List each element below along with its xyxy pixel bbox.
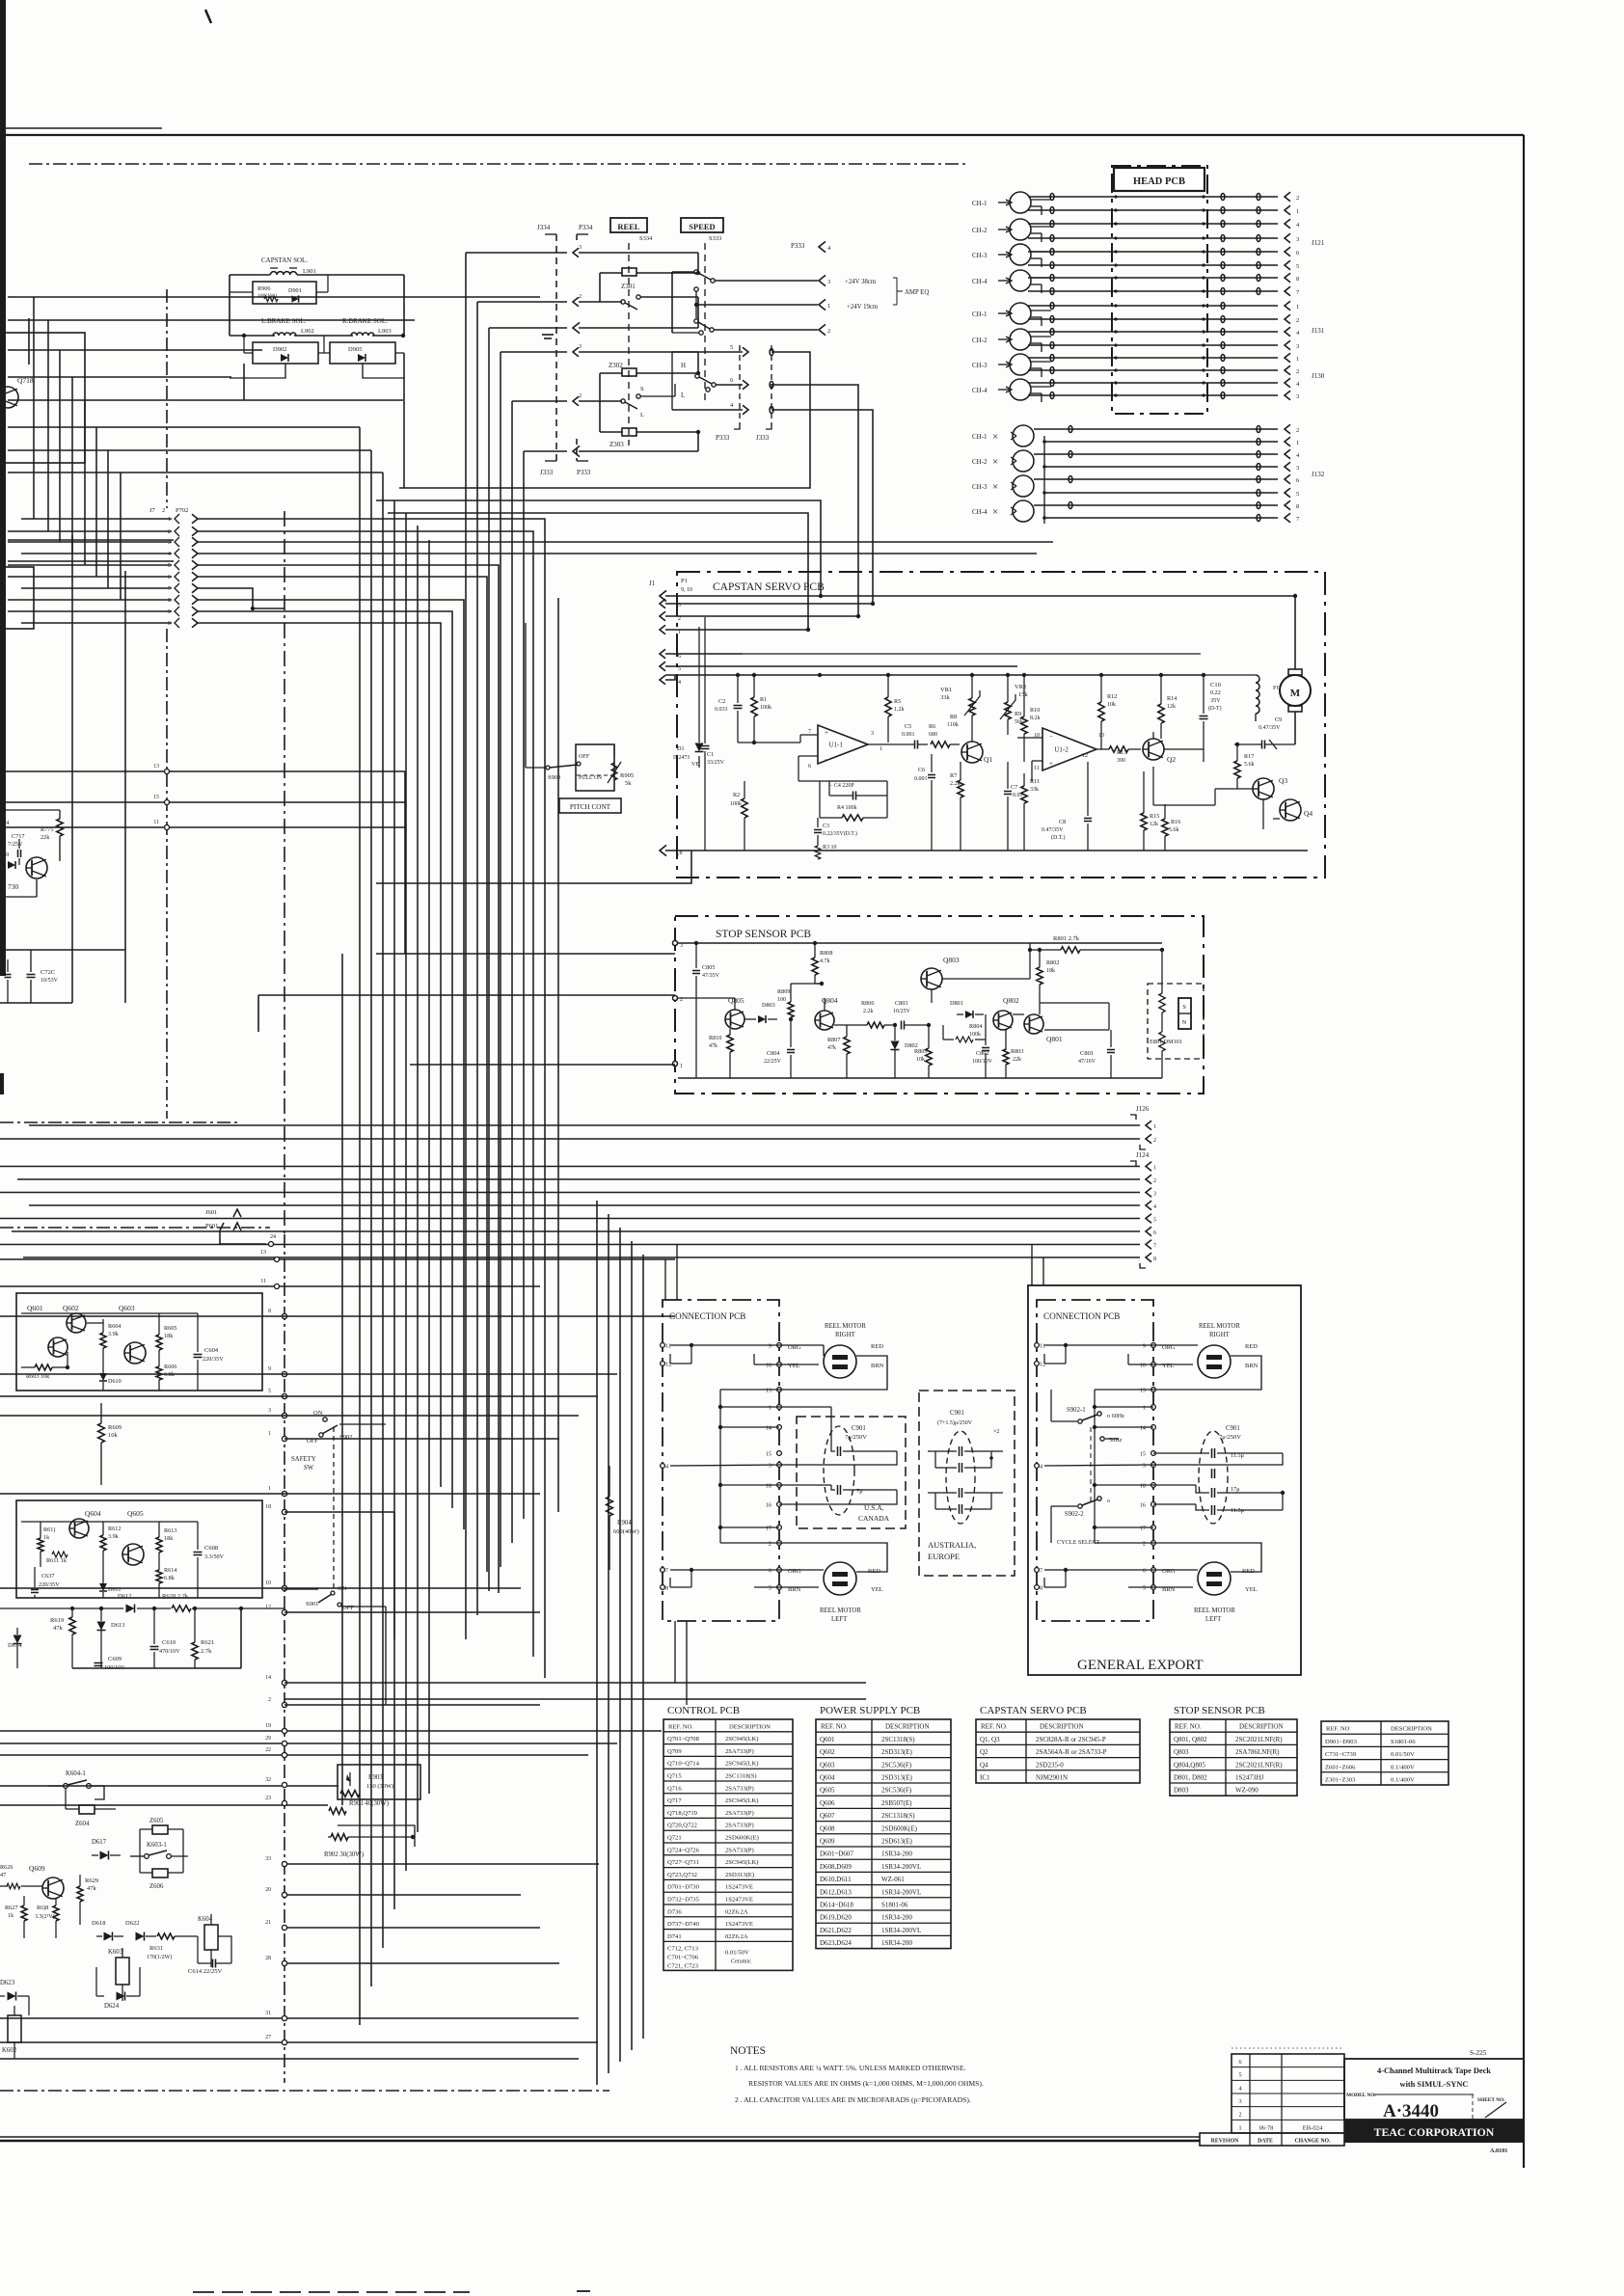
svg-text:3: 3 xyxy=(579,344,582,350)
svg-text:Q724~Q726: Q724~Q726 xyxy=(667,1847,700,1853)
svg-text:1 . ALL RESISTORS ARE ¼ WATT.: 1 . ALL RESISTORS ARE ¼ WATT. 5%. UNLESS… xyxy=(735,2064,966,2072)
svg-text:C721, C723: C721, C723 xyxy=(667,1962,699,1969)
svg-text:C604: C604 xyxy=(204,1347,219,1354)
svg-text:100k: 100k xyxy=(730,801,742,807)
svg-text:P333: P333 xyxy=(791,242,805,250)
extra bundle verticals xyxy=(341,954,343,1805)
svg-text:DATE: DATE xyxy=(1258,2139,1273,2145)
svg-text:11: 11 xyxy=(153,820,159,825)
svg-text:470/10V: 470/10V xyxy=(159,1648,180,1655)
control PCB dash-dot boundary vertical at P702 xyxy=(166,289,168,508)
svg-text:×: × xyxy=(992,431,998,443)
switch S333 second pole xyxy=(694,287,698,291)
svg-text:D613: D613 xyxy=(111,1622,124,1629)
svg-text:4-Channel Multitrack Tape Deck: 4-Channel Multitrack Tape Deck xyxy=(1377,2066,1491,2075)
bus wires mid left xyxy=(0,1315,675,1317)
svg-text:J601: J601 xyxy=(205,1209,217,1216)
svg-text:Z301~Z303: Z301~Z303 xyxy=(1325,1777,1356,1784)
svg-text:DESCRIPTION: DESCRIPTION xyxy=(885,1723,930,1731)
svg-text:13: 13 xyxy=(766,1388,771,1394)
svg-text:C7: C7 xyxy=(1011,784,1017,791)
general export outer box xyxy=(1028,1285,1301,1675)
svg-text:(D.T.): (D.T.) xyxy=(1051,834,1066,841)
svg-text:S: S xyxy=(1182,1004,1186,1011)
svg-text:U.S.A,: U.S.A, xyxy=(864,1503,884,1512)
transistor Q3 xyxy=(1253,778,1274,799)
svg-text:PULL ON: PULL ON xyxy=(579,775,603,781)
svg-text:17: 17 xyxy=(766,1526,771,1532)
svg-text:2: 2 xyxy=(769,1541,771,1548)
svg-text:RIGHT: RIGHT xyxy=(1209,1332,1231,1338)
svg-text:8.2k: 8.2k xyxy=(1030,716,1041,721)
svg-text:1: 1 xyxy=(680,1064,683,1069)
svg-text:5: 5 xyxy=(1238,2072,1241,2079)
svg-text:2SA733(P): 2SA733(P) xyxy=(725,1785,754,1792)
switch S903 pitch control box xyxy=(576,744,614,791)
svg-text:2SC2021LNF(R): 2SC2021LNF(R) xyxy=(1235,1761,1283,1769)
svg-text:2: 2 xyxy=(678,616,681,622)
svg-text:7: 7 xyxy=(1153,1244,1156,1250)
svg-text:ORG: ORG xyxy=(1162,1568,1176,1575)
reel motor left (EXPORT) xyxy=(1198,1562,1231,1595)
connection pcb EXPORT right pins xyxy=(1151,1343,1156,1348)
relay coil K602 xyxy=(8,2015,21,2042)
control PCB dash-dot boundary top xyxy=(29,163,969,165)
spark killer Z303 xyxy=(622,428,636,436)
svg-text:R6)8: R6)8 xyxy=(37,1904,48,1911)
title block box xyxy=(1344,2059,1524,2120)
svg-text:HEAD PCB: HEAD PCB xyxy=(1133,176,1185,187)
svg-text:Q801, Q802: Q801, Q802 xyxy=(1174,1736,1207,1743)
svg-text:6: 6 xyxy=(1153,1230,1156,1236)
svg-text:C5: C5 xyxy=(905,723,911,730)
svg-text:3: 3 xyxy=(1238,2098,1241,2105)
svg-text:C610: C610 xyxy=(162,1639,176,1646)
svg-text:1: 1 xyxy=(1143,1405,1146,1412)
svg-text:24: 24 xyxy=(270,1234,276,1240)
svg-text:C803: C803 xyxy=(895,1000,907,1007)
svg-text:D611: D611 xyxy=(108,1586,122,1593)
svg-text:2SD235-0: 2SD235-0 xyxy=(1036,1761,1064,1769)
USA CANADA dashed box xyxy=(797,1417,906,1528)
svg-text:3: 3 xyxy=(268,1408,271,1414)
S903 wiring xyxy=(525,623,527,768)
svg-text:740: 740 xyxy=(0,851,9,858)
svg-text:D610,D611: D610,D611 xyxy=(820,1876,852,1883)
svg-text:Q606: Q606 xyxy=(820,1799,835,1807)
svg-text:+24V 19cm: +24V 19cm xyxy=(847,304,879,311)
svg-text:Q604: Q604 xyxy=(85,1509,101,1518)
resistor R902 30(30W) box xyxy=(338,1825,415,1847)
svg-text:2SA733(P): 2SA733(P) xyxy=(725,1810,754,1817)
svg-text:D619,D620: D619,D620 xyxy=(820,1914,852,1922)
svg-text:2: 2 xyxy=(1153,1178,1156,1184)
feed wires from switch area into capstan box xyxy=(376,500,821,596)
svg-text:Q716: Q716 xyxy=(667,1785,682,1792)
svg-text:o: o xyxy=(1107,1498,1110,1504)
svg-text:Q715: Q715 xyxy=(667,1773,682,1780)
svg-text:33: 33 xyxy=(265,1856,271,1862)
REEL switch box label xyxy=(610,218,647,232)
svg-text:C805: C805 xyxy=(702,964,715,971)
svg-text:15: 15 xyxy=(1140,1451,1146,1458)
svg-text:730: 730 xyxy=(8,882,19,891)
feed wires into left connection box top xyxy=(664,1259,666,1300)
svg-text:14: 14 xyxy=(766,1425,771,1432)
capstan internal ground rail xyxy=(691,850,1308,851)
connector P334 pin 1 xyxy=(573,322,580,333)
svg-text:5: 5 xyxy=(769,1585,771,1592)
svg-text:100/10V: 100/10V xyxy=(972,1059,993,1065)
svg-text:WZ-090: WZ-090 xyxy=(1235,1787,1259,1795)
svg-text:J130: J130 xyxy=(1312,372,1325,380)
SPEED switch dashed line xyxy=(704,243,706,405)
svg-text:+: + xyxy=(825,729,828,737)
svg-text:CH-2: CH-2 xyxy=(972,458,988,466)
svg-text:3: 3 xyxy=(579,245,582,251)
svg-text:13: 13 xyxy=(153,764,159,770)
svg-text:0.001: 0.001 xyxy=(902,732,915,738)
svg-text:Q602: Q602 xyxy=(63,1304,79,1312)
svg-text:9, 10: 9, 10 xyxy=(681,587,692,593)
svg-text:D621,D622: D621,D622 xyxy=(820,1927,852,1934)
svg-text:CYCLE SELECT: CYCLE SELECT xyxy=(1057,1539,1100,1546)
svg-text:2: 2 xyxy=(1296,368,1299,375)
svg-text:1S2473VE: 1S2473VE xyxy=(725,1884,753,1891)
left mesh lower stubs xyxy=(8,539,174,541)
left mesh horizontal wires xyxy=(8,296,540,298)
svg-text:2 . ALL CAPACITOR VALUES ARE I: 2 . ALL CAPACITOR VALUES ARE IN MICROFAR… xyxy=(735,2095,971,2104)
head CH-4 wires xyxy=(1031,386,1051,388)
pin 7,8 feed xyxy=(376,851,691,883)
svg-text:CONNECTION PCB: CONNECTION PCB xyxy=(1043,1311,1120,1321)
svg-text:2SC1318(S): 2SC1318(S) xyxy=(881,1736,915,1743)
transistor Q1 xyxy=(961,742,983,763)
svg-text:0.47/35V: 0.47/35V xyxy=(1259,725,1281,731)
svg-text:3: 3 xyxy=(680,943,683,949)
svg-text:AMP EQ: AMP EQ xyxy=(905,289,929,296)
svg-text:VR1: VR1 xyxy=(940,687,952,693)
motor M xyxy=(1280,675,1311,706)
svg-text:0.1/400V: 0.1/400V xyxy=(1391,1777,1415,1784)
svg-text:R609: R609 xyxy=(108,1424,122,1431)
svg-text:D737~D740: D737~D740 xyxy=(667,1921,700,1928)
svg-text:3: 3 xyxy=(1153,1192,1156,1198)
svg-text:6: 6 xyxy=(808,764,811,770)
svg-text:REEL: REEL xyxy=(617,222,639,231)
svg-text:R804: R804 xyxy=(969,1023,982,1030)
svg-text:2SC536(F): 2SC536(F) xyxy=(881,1787,912,1795)
head CH-2 wires xyxy=(1031,336,1051,338)
svg-text:Z606: Z606 xyxy=(149,1883,164,1890)
switch S334 upper contacts xyxy=(621,300,625,304)
dash-dot stop sensor feed xyxy=(28,318,30,365)
svg-text:0.22: 0.22 xyxy=(1210,689,1221,696)
AUSTRALIA EUROPE dashed box xyxy=(919,1391,1015,1576)
wires Q604 area xyxy=(21,1521,198,1523)
svg-text:DESCRIPTION: DESCRIPTION xyxy=(1040,1723,1084,1731)
svg-text:220/35V: 220/35V xyxy=(203,1356,224,1363)
svg-text:1: 1 xyxy=(268,1486,271,1492)
svg-text:S334: S334 xyxy=(639,235,653,242)
svg-text:C8: C8 xyxy=(1059,819,1066,825)
svg-text:4: 4 xyxy=(665,1464,668,1471)
svg-text:47/16V: 47/16V xyxy=(1078,1059,1096,1065)
svg-text:774: 774 xyxy=(0,820,9,826)
svg-text:5.6k: 5.6k xyxy=(1244,762,1255,768)
svg-text:R16: R16 xyxy=(1171,819,1180,825)
svg-text:2SC1318(S): 2SC1318(S) xyxy=(881,1812,915,1820)
P702 pin wires to right with staircase down xyxy=(198,519,545,1678)
svg-text:10: 10 xyxy=(265,1580,271,1586)
feed wires into GENERAL EXPORT box top xyxy=(1031,1244,1033,1285)
svg-text:13: 13 xyxy=(260,1250,266,1256)
svg-text:15: 15 xyxy=(766,1451,771,1458)
svg-text:150 (30W): 150 (30W) xyxy=(366,1783,393,1790)
svg-text:18k: 18k xyxy=(164,1535,174,1542)
svg-text:18: 18 xyxy=(265,1504,271,1510)
svg-text:REF. NO.: REF. NO. xyxy=(668,1723,693,1730)
svg-text:R905: R905 xyxy=(620,772,634,779)
dots on head pcb box edges xyxy=(1114,195,1117,198)
svg-text:OFF: OFF xyxy=(307,1438,318,1445)
svg-text:10: 10 xyxy=(1140,1363,1146,1369)
svg-text:100k: 100k xyxy=(760,705,771,711)
svg-text:06·78: 06·78 xyxy=(1259,2124,1274,2131)
left box around Q718 xyxy=(0,333,85,463)
svg-text:D618: D618 xyxy=(92,1920,105,1927)
svg-text:2: 2 xyxy=(1296,195,1299,202)
svg-text:R903: R903 xyxy=(368,1774,383,1781)
svg-text:H: H xyxy=(681,362,686,369)
svg-text:L902: L902 xyxy=(301,328,314,335)
svg-text:110k: 110k xyxy=(947,722,959,728)
svg-text:12k: 12k xyxy=(1150,822,1158,827)
svg-text:8: 8 xyxy=(1296,503,1299,510)
svg-text:Q601: Q601 xyxy=(820,1736,835,1743)
svg-text:IS2473: IS2473 xyxy=(673,755,690,761)
svg-text:10k: 10k xyxy=(916,1057,925,1063)
svg-text:3.9k: 3.9k xyxy=(108,1331,120,1337)
svg-text:22k: 22k xyxy=(41,834,50,841)
svg-text:C609: C609 xyxy=(108,1656,122,1662)
svg-text:C614 22/25V: C614 22/25V xyxy=(188,1968,223,1975)
svg-text:C801: C801 xyxy=(1080,1050,1094,1057)
svg-text:R612: R612 xyxy=(108,1526,121,1532)
svg-text:17: 17 xyxy=(1140,1526,1146,1532)
svg-text:4.7k: 4.7k xyxy=(820,959,830,964)
svg-text:+: + xyxy=(1049,760,1053,768)
svg-text:CH-1: CH-1 xyxy=(972,311,988,318)
svg-text:CH-3: CH-3 xyxy=(972,362,988,369)
svg-text:L903: L903 xyxy=(378,328,392,335)
svg-text:2SC945(LK): 2SC945(LK) xyxy=(725,1761,758,1768)
svg-text:R620 2.2k: R620 2.2k xyxy=(162,1593,189,1600)
svg-text:D801: D801 xyxy=(950,1000,963,1007)
erase head wire rows J132 xyxy=(1034,428,1278,430)
reel motor left wires (USA) xyxy=(779,1569,824,1571)
svg-text:10k: 10k xyxy=(108,1432,119,1439)
J334 dashed line xyxy=(555,234,557,461)
svg-text:YEL: YEL xyxy=(1245,1586,1258,1593)
svg-text:11: 11 xyxy=(260,1279,266,1284)
svg-text:0.22/35V(D.T.): 0.22/35V(D.T.) xyxy=(823,830,857,837)
svg-text:1: 1 xyxy=(1296,356,1299,363)
svg-text:29: 29 xyxy=(265,1736,271,1742)
svg-text:2: 2 xyxy=(162,507,165,514)
revision table dotted top xyxy=(1232,2047,1344,2049)
svg-text:DESCRIPTION: DESCRIPTION xyxy=(1239,1723,1284,1731)
parts table misc (no title) xyxy=(1321,1721,1448,1785)
svg-text:2: 2 xyxy=(1296,317,1299,324)
transistor Q730 xyxy=(26,857,47,878)
svg-text:RIGHT: RIGHT xyxy=(835,1332,856,1338)
svg-text:22: 22 xyxy=(265,1747,271,1753)
resistor R903 150(30W) box xyxy=(338,1765,420,1799)
svg-text:R603 10k: R603 10k xyxy=(26,1373,50,1380)
svg-text:1SR34-200VL: 1SR34-200VL xyxy=(881,1888,921,1896)
svg-text:CH-3: CH-3 xyxy=(972,483,988,491)
svg-text:J132: J132 xyxy=(1312,471,1325,478)
svg-text:J333: J333 xyxy=(756,434,770,442)
svg-text:5: 5 xyxy=(1153,1218,1156,1224)
svg-text:220/35V: 220/35V xyxy=(39,1581,60,1588)
svg-text:ON: ON xyxy=(338,1585,347,1592)
diode D902 box xyxy=(253,342,318,364)
svg-text:AUSTRALIA,: AUSTRALIA, xyxy=(928,1540,976,1550)
svg-text:Q601: Q601 xyxy=(27,1304,43,1312)
svg-text:15k: 15k xyxy=(1018,691,1029,698)
svg-text:NJM2901N: NJM2901N xyxy=(1036,1774,1068,1782)
svg-text:1S2473VE: 1S2473VE xyxy=(725,1921,753,1928)
svg-text:C2: C2 xyxy=(718,698,725,705)
solenoid box bottom wires xyxy=(230,364,285,378)
svg-text:Q804,Q805: Q804,Q805 xyxy=(1174,1761,1205,1769)
svg-text:12: 12 xyxy=(265,1605,271,1610)
svg-text:R61): R61) xyxy=(43,1526,55,1533)
svg-text:32: 32 xyxy=(265,1777,271,1783)
capstan servo PCB dash-dot box xyxy=(677,572,1325,878)
wires Q601-603 xyxy=(21,1312,198,1314)
svg-text:3: 3 xyxy=(1296,465,1299,472)
svg-text:STOP SENSOR PCB: STOP SENSOR PCB xyxy=(1174,1705,1265,1716)
svg-text:D736: D736 xyxy=(667,1908,682,1915)
svg-text:9: 9 xyxy=(268,1366,271,1372)
svg-text:NOTES: NOTES xyxy=(730,2045,766,2057)
svg-text:1: 1 xyxy=(1296,208,1299,215)
svg-text:1SR34-200VL: 1SR34-200VL xyxy=(881,1927,921,1934)
svg-text:8: 8 xyxy=(1296,276,1299,283)
bus wire y989 xyxy=(376,953,675,955)
svg-text:47/35V: 47/35V xyxy=(702,973,720,979)
svg-text:C717: C717 xyxy=(12,833,24,840)
svg-text:P333: P333 xyxy=(577,469,591,476)
svg-text:D610: D610 xyxy=(108,1378,122,1385)
svg-text:2: 2 xyxy=(1296,427,1299,434)
svg-text:9: 9 xyxy=(769,1343,771,1350)
svg-text:2SA733(P): 2SA733(P) xyxy=(725,1823,754,1829)
svg-text:16: 16 xyxy=(1140,1502,1146,1509)
svg-text:C10: C10 xyxy=(1210,682,1221,689)
svg-text:0.001: 0.001 xyxy=(914,776,928,782)
svg-text:D901: D901 xyxy=(288,287,302,294)
svg-text:Z302: Z302 xyxy=(609,362,623,369)
svg-text:R803: R803 xyxy=(1011,1048,1023,1055)
connection pcb USA left pins xyxy=(661,1343,665,1348)
svg-text:1: 1 xyxy=(880,746,882,752)
svg-text:R12: R12 xyxy=(1107,693,1117,700)
svg-text:S902-2: S902-2 xyxy=(1065,1511,1084,1518)
svg-text:R809: R809 xyxy=(777,988,790,995)
bus wire y1104 to stop sensor pin1 xyxy=(410,1064,675,1066)
op amp U1-2 xyxy=(1042,728,1096,770)
svg-text:IC1: IC1 xyxy=(980,1774,990,1782)
diode D905 box xyxy=(330,342,395,364)
svg-text:R806: R806 xyxy=(861,1000,874,1007)
svg-text:REEL MOTOR: REEL MOTOR xyxy=(825,1323,866,1330)
svg-text:2SD313(E): 2SD313(E) xyxy=(881,1774,913,1782)
svg-text:OFF: OFF xyxy=(579,753,590,760)
svg-text:5: 5 xyxy=(1143,1585,1146,1592)
head CH-4 wires xyxy=(1031,277,1051,279)
svg-text:5: 5 xyxy=(268,1389,271,1394)
svg-text:Q608: Q608 xyxy=(820,1824,835,1832)
svg-text:DESCRIPTION: DESCRIPTION xyxy=(1391,1726,1432,1733)
svg-text:1SR34-200: 1SR34-200 xyxy=(881,1914,912,1922)
dash-dot boundary y1273 xyxy=(0,1227,270,1229)
svg-text:D623,D624: D623,D624 xyxy=(820,1939,852,1947)
svg-text:14: 14 xyxy=(265,1675,271,1681)
svg-text:REEL MOTOR: REEL MOTOR xyxy=(1194,1607,1235,1614)
svg-text:2SA733(P): 2SA733(P) xyxy=(725,1847,754,1853)
svg-text:Q717: Q717 xyxy=(667,1797,682,1804)
svg-text:9: 9 xyxy=(1143,1343,1146,1350)
svg-text:8: 8 xyxy=(1153,1256,1156,1262)
ground rail lower xyxy=(72,1667,241,1669)
svg-text:C637: C637 xyxy=(41,1573,54,1580)
connector P333 top pins xyxy=(819,241,826,252)
spark killer Z301 xyxy=(622,268,636,276)
svg-text:2: 2 xyxy=(579,294,582,300)
dash-dot boundary y1164 xyxy=(0,1121,241,1123)
svg-text:18k: 18k xyxy=(1046,968,1055,974)
head CH-3 wires xyxy=(1031,361,1051,363)
svg-text:K603: K603 xyxy=(108,1949,123,1956)
vertical bundle right of center going down xyxy=(596,1201,598,2085)
magnet S N symbol xyxy=(1178,998,1191,1029)
solenoid circuit wires xyxy=(230,274,270,276)
svg-text:17μ: 17μ xyxy=(1231,1486,1240,1493)
svg-text:2SC1318(S): 2SC1318(S) xyxy=(725,1773,757,1780)
svg-text:2SD600K(E): 2SD600K(E) xyxy=(725,1835,759,1842)
svg-text:P334: P334 xyxy=(579,224,593,231)
svg-text:REEL MOTOR: REEL MOTOR xyxy=(1199,1323,1240,1330)
svg-text:2.2k: 2.2k xyxy=(863,1009,874,1014)
svg-text:Z604: Z604 xyxy=(75,1821,90,1827)
svg-text:7: 7 xyxy=(808,729,811,735)
svg-text:2SA786LNF(R): 2SA786LNF(R) xyxy=(1235,1748,1280,1756)
frame right line xyxy=(1523,135,1525,2168)
svg-text:CH-2: CH-2 xyxy=(972,337,988,344)
svg-text:10/25V: 10/25V xyxy=(893,1009,911,1014)
sheet no box xyxy=(1472,2094,1474,2120)
central dash-dot boundary vertical x295 xyxy=(284,1234,285,2083)
svg-text:Q1: Q1 xyxy=(984,755,992,764)
svg-text:R619: R619 xyxy=(50,1617,64,1624)
svg-text:S1801-06: S1801-06 xyxy=(1391,1739,1416,1745)
svg-text:390: 390 xyxy=(1117,758,1125,764)
svg-text:Q609: Q609 xyxy=(820,1838,835,1846)
